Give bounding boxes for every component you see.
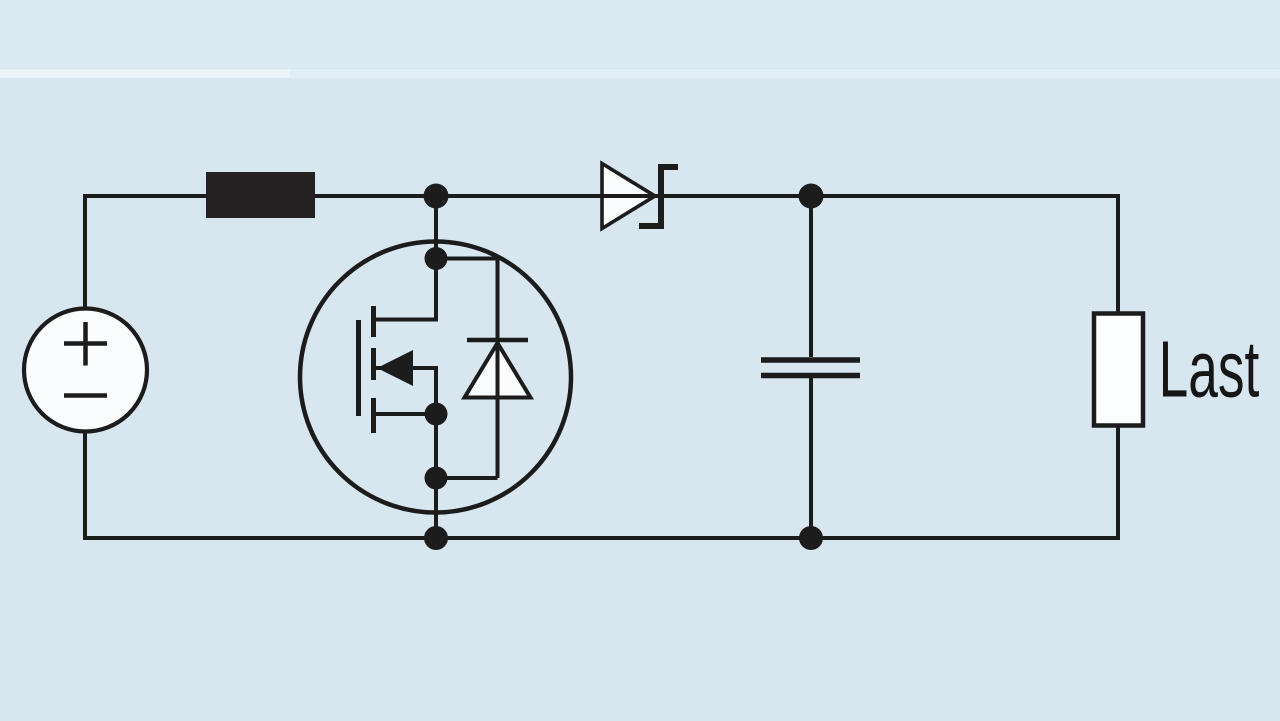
node: top rail / capacitor junction	[799, 184, 824, 209]
body diode triangle	[465, 343, 531, 398]
body diode cathode bar	[467, 338, 528, 343]
body diode connection top	[436, 257, 498, 261]
capacitor top plate	[761, 357, 860, 363]
junction dot source/bulk	[425, 403, 448, 426]
wire: bottom rail	[85, 536, 1120, 540]
channel segment source	[371, 348, 376, 380]
wire: drain horizontal to channel	[373, 318, 438, 322]
inductor L1 (solid block)	[206, 172, 315, 218]
wire: source horizontal	[373, 366, 438, 370]
load resistor	[1094, 314, 1143, 426]
wire: top rail from source to load	[85, 194, 1120, 198]
capacitor bottom plate	[761, 373, 860, 379]
wire: left vertical (source branch)	[83, 194, 87, 310]
node: top rail / drain junction	[424, 184, 449, 209]
wire: right vertical (load branch)	[1116, 194, 1120, 316]
wire: source/bulk vertical	[434, 368, 438, 538]
junction dot source bottom	[425, 467, 448, 490]
source arrow	[377, 350, 413, 386]
diode D1 (zener)	[596, 164, 680, 229]
minus sign	[64, 393, 107, 398]
MOSFET T1	[300, 242, 571, 513]
body diode connection bottom	[436, 476, 498, 480]
wire through diode	[596, 194, 680, 198]
plus sign	[64, 322, 107, 366]
svg-text:Last: Last	[1159, 326, 1260, 414]
diode cathode bar with hooks	[639, 167, 678, 226]
gate bar	[356, 320, 361, 416]
junction dot drain inside	[425, 247, 448, 270]
voltage source V1	[24, 309, 147, 432]
wire: bulk horizontal	[373, 412, 438, 416]
channel segment drain	[371, 306, 376, 337]
transistor body circle	[300, 242, 571, 513]
body diode vertical wire	[496, 259, 500, 479]
node: bottom rail / capacitor junction	[799, 526, 823, 550]
node: bottom rail / source junction	[424, 526, 448, 550]
wire: MOSFET drain feed vertical	[434, 196, 438, 321]
diode triangle	[602, 164, 655, 229]
capacitor C1	[761, 360, 860, 376]
channel segment bulk	[371, 398, 376, 433]
wire: capacitor branch vertical	[809, 196, 813, 357]
